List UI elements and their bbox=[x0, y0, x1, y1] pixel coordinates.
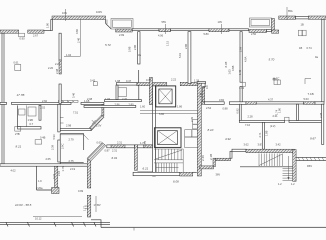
svg-text:2.99: 2.99 bbox=[119, 33, 125, 37]
svg-text:5.9B: 5.9B bbox=[128, 46, 132, 52]
svg-text:0.74: 0.74 bbox=[146, 78, 152, 82]
ground line bottom right bbox=[101, 226, 326, 228]
door notch bbox=[285, 117, 289, 120]
texts right bottom bbox=[236, 107, 282, 146]
dim tick x65.5 bbox=[65, 9, 67, 21]
svg-text:4.37: 4.37 bbox=[268, 98, 274, 102]
shaft square vestibule bbox=[52, 188, 60, 194]
fixture small bbox=[15, 127, 21, 132]
wall pier P1 bbox=[159, 29, 171, 32]
svg-text:2.9C: 2.9C bbox=[61, 143, 65, 149]
svg-text:8.10: 8.10 bbox=[208, 128, 214, 132]
svg-text:5.70: 5.70 bbox=[269, 57, 275, 61]
elevator E1 bbox=[156, 86, 176, 107]
svg-text:1.15: 1.15 bbox=[166, 40, 170, 46]
core left wall bbox=[153, 86, 156, 176]
svg-text:2.67: 2.67 bbox=[33, 34, 39, 38]
svg-text:0.42: 0.42 bbox=[90, 79, 96, 83]
svg-text:0.92: 0.92 bbox=[236, 108, 240, 114]
wall vertical hatched x89 upper bbox=[87, 160, 91, 189]
svg-text:10.9V - 58.5: 10.9V - 58.5 bbox=[15, 203, 32, 207]
texts mid dims bbox=[11, 40, 324, 172]
wall entrance vertical hatched x136 bbox=[134, 145, 137, 171]
wall entrance y146.4 bbox=[107, 145, 135, 148]
bathroom left walls bbox=[18, 105, 42, 129]
svg-text:2.16: 2.16 bbox=[57, 170, 61, 176]
wall long right y102.8 bbox=[201, 102, 324, 105]
svg-text:0.9: 0.9 bbox=[205, 85, 209, 89]
svg-text:55V: 55V bbox=[162, 20, 167, 24]
svg-text:5.80: 5.80 bbox=[204, 32, 210, 36]
svg-text:1.60: 1.60 bbox=[140, 105, 146, 109]
wall long left y103.4 segment 2 bbox=[12, 102, 72, 104]
svg-text:2.1B: 2.1B bbox=[209, 154, 213, 160]
right stair bottom line bbox=[240, 166, 293, 168]
wall vertical x60 room divider upper bbox=[59, 33, 61, 60]
dim witness x96 bbox=[95, 196, 97, 212]
svg-text:2.80: 2.80 bbox=[129, 102, 135, 106]
svg-text:3.42: 3.42 bbox=[276, 143, 282, 147]
svg-text:2.86: 2.86 bbox=[133, 44, 137, 50]
svg-text:7.10: 7.10 bbox=[245, 123, 251, 127]
wc box room bbox=[60, 134, 88, 164]
apartment divider x189.5 bbox=[188, 32, 191, 84]
wall right of core y167.4 bbox=[200, 166, 214, 169]
balcony B2 outline bbox=[250, 18, 272, 27]
svg-text:3.82: 3.82 bbox=[219, 98, 225, 102]
wall right stair top bbox=[232, 149, 246, 152]
door ticks on divider bbox=[60, 117, 63, 119]
core bottom wall bbox=[133, 172, 180, 175]
svg-text:5.72: 5.72 bbox=[105, 43, 111, 47]
svg-text:2.20: 2.20 bbox=[48, 66, 54, 70]
wall vertical x59 room divider lower bbox=[58, 104, 60, 131]
svg-text:0.63: 0.63 bbox=[97, 141, 103, 145]
bathroom apt3 walls bbox=[197, 82, 206, 103]
svg-text:6.95: 6.95 bbox=[224, 61, 228, 67]
svg-text:2.99: 2.99 bbox=[239, 46, 243, 52]
svg-text:1.8B: 1.8B bbox=[265, 130, 269, 136]
line vestibule bottom bbox=[137, 171, 152, 173]
texts room labels bbox=[15, 43, 316, 207]
svg-text:3.46: 3.46 bbox=[72, 92, 76, 98]
svg-text:7.51: 7.51 bbox=[73, 111, 79, 115]
svg-text:0.74: 0.74 bbox=[307, 46, 313, 50]
core top wall bbox=[137, 83, 167, 86]
wall vertical connector x51.5 bbox=[51, 20, 53, 31]
bathroom middle walls bbox=[105, 83, 142, 102]
svg-text:1.1B: 1.1B bbox=[84, 99, 90, 103]
svg-text:6.21: 6.21 bbox=[143, 166, 149, 170]
svg-text:10.12: 10.12 bbox=[35, 216, 42, 220]
wall top-right outer band C bbox=[279, 16, 296, 19]
texts corridor bbox=[46, 105, 194, 212]
corner mark apt4 bbox=[305, 79, 311, 85]
svg-text:0.60: 0.60 bbox=[75, 28, 79, 34]
wall corridor north y106.4 bbox=[84, 105, 136, 107]
wall vertical x231 bbox=[230, 151, 232, 158]
wall top-left outer band A bbox=[52, 16, 106, 20]
dim line room5 horizontal bbox=[64, 55, 80, 57]
cross mark on diagonal bbox=[92, 120, 96, 124]
wall right outer lower bbox=[322, 104, 324, 144]
vestibule box bbox=[37, 166, 58, 190]
door square D1 bbox=[19, 33, 25, 37]
svg-text:2.65: 2.65 bbox=[46, 157, 52, 161]
wall bottom-left y165 bbox=[0, 164, 89, 166]
svg-text:10V: 10V bbox=[218, 20, 223, 24]
wall long left y103.4 segment 3 bbox=[81, 102, 104, 104]
svg-text:2.98: 2.98 bbox=[66, 124, 72, 128]
svg-text:5.91: 5.91 bbox=[178, 52, 182, 58]
door ticks above long wall bbox=[59, 100, 63, 102]
svg-text:2.22: 2.22 bbox=[171, 78, 177, 82]
fixture tub bbox=[28, 107, 36, 116]
svg-text:1.75: 1.75 bbox=[61, 166, 65, 172]
svg-text:4.92: 4.92 bbox=[225, 137, 231, 141]
wall corner L at x272 bbox=[272, 19, 275, 31]
shaft rect room8 bbox=[35, 140, 42, 144]
svg-text:4.06: 4.06 bbox=[158, 34, 164, 38]
middle apartment divider x138.7 bbox=[138, 32, 140, 64]
svg-text:2.96: 2.96 bbox=[115, 102, 121, 106]
window W1 bbox=[132, 29, 159, 31]
svg-text:0.87: 0.87 bbox=[105, 149, 111, 153]
balcony B1 outline bbox=[111, 19, 133, 30]
svg-text:2.19: 2.19 bbox=[70, 167, 76, 171]
texts top bbox=[62, 9, 293, 24]
svg-text:0.22: 0.22 bbox=[52, 173, 56, 179]
right stair flight2 treads bbox=[283, 156, 295, 181]
notch apt4 bbox=[242, 82, 245, 86]
svg-text:4.9A: 4.9A bbox=[244, 56, 248, 62]
svg-text:4.02: 4.02 bbox=[11, 168, 17, 172]
wall top-left lower D segment 2 bbox=[28, 30, 44, 33]
stair landing bbox=[154, 162, 183, 164]
svg-text:85A: 85A bbox=[288, 9, 293, 13]
svg-text:3.87: 3.87 bbox=[258, 143, 264, 147]
dimension string bottom double line bbox=[0, 222, 110, 226]
texts dims row1 bbox=[20, 23, 319, 60]
svg-text:1.02: 1.02 bbox=[239, 86, 245, 90]
wall top-left lower D segment 1 bbox=[0, 30, 19, 33]
svg-text:6.06: 6.06 bbox=[173, 180, 179, 184]
shaft rect room17 bbox=[15, 65, 21, 71]
svg-text:2.60: 2.60 bbox=[42, 99, 48, 103]
shaft 0.42 bbox=[94, 82, 98, 86]
svg-text:1.03: 1.03 bbox=[105, 97, 111, 101]
wall vertical x297.4 bbox=[296, 104, 298, 120]
right stair right wall bbox=[293, 150, 296, 182]
svg-text:2.50: 2.50 bbox=[251, 32, 257, 36]
wall x150.8 core hall left bbox=[149, 78, 152, 105]
svg-text:1.80: 1.80 bbox=[46, 22, 50, 28]
svg-text:1.43: 1.43 bbox=[238, 69, 242, 75]
svg-text:5.86: 5.86 bbox=[159, 112, 165, 116]
svg-text:1.86: 1.86 bbox=[177, 105, 183, 109]
svg-text:0.6B: 0.6B bbox=[231, 65, 235, 71]
stair flight B treads bbox=[156, 163, 179, 172]
wall balcony B1 sill bbox=[116, 29, 133, 32]
svg-text:1.9B: 1.9B bbox=[28, 118, 34, 122]
wall L divider x240.2 bbox=[239, 104, 241, 121]
wall diagonal lower corridor bbox=[87, 143, 106, 162]
elevator E2 bbox=[154, 128, 181, 148]
svg-text:0.99: 0.99 bbox=[78, 189, 84, 193]
wall long right y121.4 bbox=[239, 120, 284, 122]
svg-text:1.80: 1.80 bbox=[278, 107, 282, 113]
svg-text:8.6C: 8.6C bbox=[273, 76, 280, 80]
dim line room5 vertical bbox=[79, 20, 81, 57]
svg-text:2.0V: 2.0V bbox=[96, 124, 102, 128]
svg-text:2.71: 2.71 bbox=[258, 132, 262, 138]
svg-text:2.75: 2.75 bbox=[69, 159, 75, 163]
svg-text:6.01: 6.01 bbox=[112, 156, 118, 160]
svg-text:2.02: 2.02 bbox=[40, 105, 46, 109]
svg-text:0.61: 0.61 bbox=[14, 61, 20, 65]
svg-text:2.20a: 2.20a bbox=[36, 186, 43, 190]
svg-text:7.1B: 7.1B bbox=[308, 92, 314, 96]
wall thin connector y30.5 bbox=[44, 30, 51, 32]
svg-text:R6V: R6V bbox=[307, 164, 312, 168]
dim tick x287 bbox=[286, 7, 288, 20]
svg-text:0.7: 0.7 bbox=[30, 122, 34, 126]
fixture basin bbox=[19, 109, 26, 115]
svg-text:2.46: 2.46 bbox=[201, 155, 205, 161]
vent boxes apt4 bbox=[298, 30, 302, 36]
svg-text:2.20: 2.20 bbox=[122, 97, 128, 101]
svg-text:2.86: 2.86 bbox=[184, 43, 188, 49]
wall pier P2 bbox=[209, 29, 229, 32]
corridor lines in core bbox=[140, 109, 197, 111]
svg-text:17.BV: 17.BV bbox=[94, 203, 101, 207]
bathroom divider line bbox=[26, 105, 28, 127]
svg-text:2.46: 2.46 bbox=[77, 37, 81, 43]
svg-text:0.47: 0.47 bbox=[126, 79, 132, 83]
wall diagonal upper corridor bbox=[89, 115, 104, 131]
window W3 bbox=[229, 29, 249, 31]
wall vertical hatched x89 lower bbox=[87, 195, 91, 217]
dim tick x165.5 bbox=[165, 24, 167, 34]
svg-text:36V: 36V bbox=[216, 172, 221, 176]
svg-text:2.39: 2.39 bbox=[190, 116, 194, 122]
dim tick x221.5 bbox=[221, 24, 223, 34]
duct boxes right of E2 bbox=[193, 120, 198, 125]
window W4 bbox=[267, 30, 272, 32]
svg-text:2.79: 2.79 bbox=[69, 137, 75, 141]
svg-text:17.7В: 17.7В bbox=[17, 93, 25, 97]
svg-text:(2.2): (2.2) bbox=[270, 124, 275, 128]
wall corridor y129.4 bbox=[58, 128, 91, 130]
svg-text:0.90: 0.90 bbox=[20, 36, 26, 40]
right stair flight1 treads bbox=[259, 154, 282, 167]
svg-text:1.98: 1.98 bbox=[115, 79, 121, 83]
texts bottom bbox=[35, 164, 312, 220]
svg-text:2.54: 2.54 bbox=[206, 106, 212, 110]
wall right wing y159 bbox=[296, 157, 326, 160]
wall vertical x263.4 bbox=[262, 122, 264, 149]
wall jog connector at x106 bbox=[105, 20, 107, 24]
svg-text:5.63: 5.63 bbox=[304, 97, 310, 101]
svg-text:1.2: 1.2 bbox=[291, 182, 295, 186]
svg-text:2.22: 2.22 bbox=[55, 62, 61, 66]
svg-text:1.29: 1.29 bbox=[194, 79, 200, 83]
entrance porch line left bbox=[33, 215, 82, 217]
svg-text:2.31: 2.31 bbox=[117, 141, 123, 145]
apartment divider x241 bbox=[240, 32, 242, 82]
stair flight A treads bbox=[154, 149, 183, 172]
svg-text:0.4B: 0.4B bbox=[40, 136, 46, 140]
fixture pair apt4 bbox=[274, 80, 280, 85]
svg-text:2.28: 2.28 bbox=[248, 114, 254, 118]
fixture tub middle bbox=[118, 88, 127, 97]
wall entrance y146.4 right part bbox=[137, 145, 152, 148]
wall vertical stub x103 bbox=[102, 104, 104, 116]
svg-text:2.38: 2.38 bbox=[55, 68, 59, 74]
svg-text:5.9C: 5.9C bbox=[52, 134, 56, 140]
svg-text:1.77: 1.77 bbox=[83, 205, 87, 211]
svg-text:1.9: 1.9 bbox=[38, 179, 42, 183]
svg-text:1B: 1B bbox=[301, 23, 304, 27]
wall right outer upper bbox=[322, 19, 324, 102]
wall balcony B2 sill bbox=[249, 30, 267, 33]
window W2 bbox=[171, 29, 210, 31]
svg-text:3.62: 3.62 bbox=[244, 143, 250, 147]
svg-text:8.21: 8.21 bbox=[16, 145, 22, 149]
svg-text:2.31: 2.31 bbox=[112, 149, 118, 153]
svg-text:100V: 100V bbox=[96, 10, 102, 14]
svg-text:1B: 1B bbox=[299, 46, 302, 50]
svg-text:16N: 16N bbox=[62, 11, 67, 15]
wall connector x214 bbox=[213, 158, 215, 166]
svg-text:27B: 27B bbox=[15, 132, 20, 136]
svg-text:1.2: 1.2 bbox=[278, 182, 282, 186]
svg-text:9.67: 9.67 bbox=[310, 137, 316, 141]
svg-text:2.39: 2.39 bbox=[51, 144, 55, 150]
wall left outer bbox=[2, 33, 4, 166]
texts rotated left bbox=[46, 22, 81, 74]
svg-text:2.28: 2.28 bbox=[319, 112, 323, 118]
entrance step bottom center bbox=[91, 220, 101, 228]
svg-text:0.88: 0.88 bbox=[223, 106, 229, 110]
svg-text:1.94: 1.94 bbox=[66, 53, 72, 57]
wall corridor step y159.4 bbox=[215, 158, 230, 160]
wall long left y103.4 segment 1 bbox=[0, 102, 7, 104]
svg-text:1.76: 1.76 bbox=[143, 140, 147, 146]
core right wall bbox=[197, 82, 201, 176]
